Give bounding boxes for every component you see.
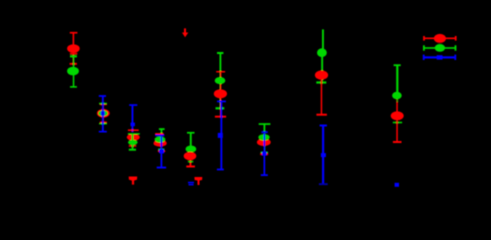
series point 7 red errorbar bbox=[257, 138, 271, 155]
series point 3 blue errorbar bbox=[129, 104, 137, 132]
series point 6 green errorbar bbox=[216, 52, 225, 109]
series point 5 red errorbar bbox=[184, 152, 197, 168]
series point 6 blue errorbar bbox=[217, 101, 226, 171]
series point 4 red marker bbox=[154, 140, 167, 147]
series point 8 red errorbar bbox=[315, 70, 328, 115]
series point 9 green errorbar bbox=[392, 64, 402, 123]
series point 5 blue lower-limit arrow bbox=[188, 182, 194, 186]
series point 4 blue errorbar bbox=[155, 135, 166, 169]
legend red entry bbox=[423, 34, 456, 43]
series point 9 green vline over red bbox=[396, 96, 398, 102]
series point 3 red errorbar bbox=[127, 129, 140, 146]
series point 7 green marker bbox=[258, 134, 269, 140]
series point 2 red errorbar bbox=[97, 104, 110, 123]
series point 4 red top cap bbox=[155, 133, 164, 135]
series point 6 green marker bbox=[215, 77, 226, 84]
series point 3 red lower-limit arrow bbox=[129, 177, 138, 185]
standalone red upper-limit arrow bbox=[182, 28, 188, 37]
series point 7 green errorbar bbox=[259, 123, 271, 153]
series point 8 green errorbar bbox=[316, 29, 327, 83]
series point 4 green marker bbox=[155, 136, 166, 142]
legend green entry bbox=[423, 44, 456, 52]
series point 2 green errorbar bbox=[98, 103, 107, 125]
series point 9 red errorbar bbox=[391, 99, 404, 143]
series point 2 blue errorbar bbox=[99, 95, 107, 132]
series point 8 blue errorbar bbox=[319, 125, 328, 186]
series point 6 red errorbar bbox=[214, 71, 227, 118]
legend blue entry bbox=[423, 55, 456, 60]
series point 9 blue marker bbox=[395, 183, 399, 187]
series point 5 red lower-limit arrow bbox=[194, 177, 202, 185]
series point 1 red errorbar bbox=[67, 32, 80, 65]
series point 4 green errorbar bbox=[158, 128, 164, 150]
series point 1 green errorbar bbox=[67, 55, 79, 87]
series point 4 red bottom cap bbox=[158, 151, 166, 152]
series point 5 green bottom cap bbox=[188, 161, 193, 163]
series point 7 blue errorbar bbox=[261, 131, 268, 176]
series point 3 green errorbar bbox=[128, 133, 140, 151]
series point 5 green errorbar bbox=[186, 132, 197, 153]
